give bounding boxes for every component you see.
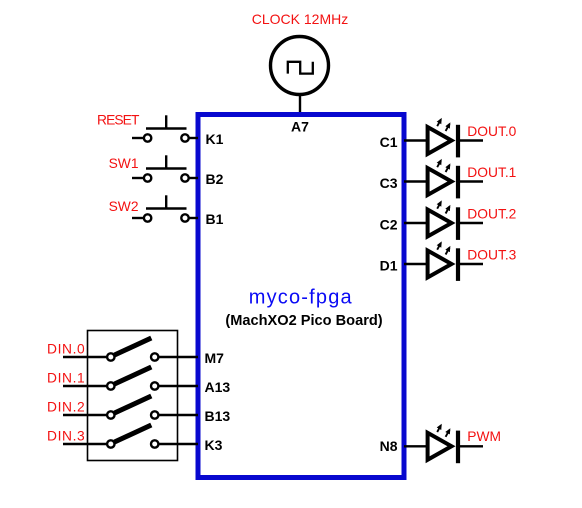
wire SW1 to pin B2 (189, 177, 198, 179)
wire LED DOUT.3 cathode (460, 263, 483, 265)
svg-text:A13: A13 (205, 379, 231, 395)
slide switch DIN.1 (107, 367, 158, 390)
wire C2 to LED DOUT.2 anode (404, 222, 427, 224)
svg-text:PWM: PWM (467, 429, 501, 444)
wire LED DOUT.1 cathode (460, 180, 483, 182)
pushbutton switch SW1 (132, 155, 189, 181)
wire DIN.3 to pin K3 (158, 443, 198, 445)
slide switch DIN.2 (107, 396, 158, 419)
wire LED DOUT.0 cathode (460, 139, 483, 141)
svg-text:SW1: SW1 (109, 156, 139, 171)
DIP switch block DIN.0-DIN.3 (88, 331, 178, 461)
wire SW2 to pin B1 (189, 217, 198, 219)
slide switch DIN.0 (107, 338, 158, 361)
LED D2 (DOUT.1) (428, 161, 458, 199)
LED D1 (DOUT.0) (428, 120, 458, 158)
svg-text:SW2: SW2 (109, 199, 139, 214)
LED D3 (DOUT.2) (428, 202, 458, 240)
svg-text:DOUT.2: DOUT.2 (467, 207, 516, 222)
wire DIN.2 to pin B13 (158, 414, 198, 416)
wire DIN.0 to pin M7 (158, 356, 198, 358)
pushbutton switch RESET (132, 115, 189, 141)
svg-text:K1: K1 (206, 131, 224, 147)
LED D5 (PWM) (428, 425, 458, 463)
svg-text:(MachXO2 Pico Board): (MachXO2 Pico Board) (225, 313, 382, 329)
svg-text:DIN.3: DIN.3 (47, 429, 85, 444)
wire DIN.3 input (63, 443, 107, 445)
wire clock to pin A7 (299, 95, 301, 112)
wire DIN.2 input (63, 414, 107, 416)
wire LED DOUT.2 cathode (460, 222, 483, 224)
svg-text:M7: M7 (205, 350, 225, 366)
svg-text:B13: B13 (205, 408, 231, 424)
svg-text:C2: C2 (380, 216, 398, 232)
svg-text:K3: K3 (205, 437, 223, 453)
svg-text:D1: D1 (380, 257, 398, 273)
svg-text:C3: C3 (380, 175, 398, 191)
wire C1 to LED DOUT.0 anode (404, 139, 427, 141)
wire RESET to pin K1 (189, 137, 198, 139)
pushbutton switch SW2 (132, 195, 189, 221)
clock oscillator (271, 37, 329, 95)
svg-text:RESET: RESET (97, 113, 140, 128)
svg-text:A7: A7 (291, 119, 309, 135)
svg-text:C1: C1 (380, 134, 398, 150)
svg-text:myco-fpga: myco-fpga (249, 287, 353, 309)
svg-text:B2: B2 (206, 171, 224, 187)
LED D4 (DOUT.3) (428, 243, 458, 281)
svg-text:DIN.2: DIN.2 (47, 400, 85, 415)
svg-text:B1: B1 (206, 211, 224, 227)
wire DIN.1 input (63, 385, 107, 387)
svg-text:DOUT.0: DOUT.0 (467, 124, 516, 139)
svg-text:DIN.1: DIN.1 (47, 371, 85, 386)
svg-text:N8: N8 (380, 438, 398, 454)
svg-text:DOUT.1: DOUT.1 (467, 165, 516, 180)
wire DIN.1 to pin A13 (158, 385, 198, 387)
svg-text:DOUT.3: DOUT.3 (467, 248, 516, 263)
wire LED PWM cathode (460, 445, 483, 447)
slide switch DIN.3 (107, 425, 158, 448)
wire DIN.0 input (63, 356, 107, 358)
wire C3 to LED DOUT.1 anode (404, 180, 427, 182)
FPGA board U1 myco-fpga (MachXO2 Pico Board) (198, 115, 404, 478)
svg-text:DIN.0: DIN.0 (47, 342, 85, 357)
svg-text:CLOCK 12MHz: CLOCK 12MHz (252, 11, 348, 27)
wire N8 to LED PWM anode (404, 445, 427, 447)
wire D1 to LED DOUT.3 anode (404, 263, 427, 265)
